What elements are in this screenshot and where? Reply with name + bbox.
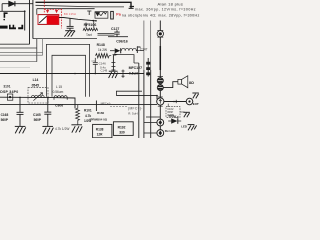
red dashed horizontal: [44, 8, 61, 10]
jack contact D: [157, 119, 164, 126]
wire top-left horizontal: [2, 3, 33, 5]
capacitor C (under pot): [67, 26, 74, 30]
resistor zigzag pair: [83, 21, 98, 31]
dashed box C162: [166, 107, 180, 118]
inductor L14 coil: [31, 95, 44, 97]
junction dot x75: [74, 73, 76, 75]
wire double bus to C127: [98, 34, 115, 36]
node dot jack column: [156, 95, 158, 97]
wire second top line: [36, 5, 125, 7]
svg-text:560P: 560P: [34, 118, 42, 122]
svg-text:L 15: L 15: [56, 85, 62, 89]
svg-text:Alan 18 plus: Alan 18 plus: [158, 2, 184, 7]
right bus vertical x138.8: [138, 63, 140, 138]
wire corner x116: [116, 91, 142, 95]
staircase bus V x36.8: [36, 39, 38, 62]
svg-text:EXT: EXT: [193, 102, 199, 106]
wire vertical x24.7: [24, 11, 26, 30]
bullet connector on jack column: [157, 31, 163, 38]
capacitor C127: [114, 30, 119, 36]
ground under C165: [42, 126, 53, 134]
potentiometer wiper diagonal: [39, 16, 47, 23]
svg-text:MFC127: MFC127: [129, 66, 142, 70]
svg-text:8Ω: 8Ω: [189, 81, 194, 85]
wire C to EXT: [164, 101, 186, 103]
svg-text:12R: 12R: [97, 133, 104, 137]
junction dot x95.3: [95, 73, 97, 75]
filter component small box: [7, 94, 12, 100]
svg-text:(MFC=)-: (MFC=)-: [128, 106, 143, 110]
potentiometer VR (highlighted) black outline: [38, 15, 59, 25]
trimmer component x123: [122, 70, 125, 79]
staircase bus H y48: [0, 47, 37, 49]
inductor L15 coil: [54, 96, 67, 100]
wire horizontal y11: [0, 10, 25, 12]
svg-text:Tant: Tant: [86, 33, 92, 37]
ground under R101: [71, 125, 82, 133]
staircase bus V x42.6: [42, 39, 44, 56]
svg-text:Rb: Rb: [137, 45, 141, 49]
ground (under cap): [64, 31, 75, 37]
svg-text:330: 330: [119, 131, 125, 135]
coil end bar: [136, 47, 138, 53]
ground under connector: [109, 71, 118, 78]
capacitor C168 drop: [19, 97, 21, 112]
svg-text:C9: C9: [92, 59, 96, 63]
wire left vertical stub: [1, 4, 3, 12]
bus H y38.6 long: [33, 38, 97, 40]
right bus vertical x144: [143, 21, 145, 71]
resistor R101 vertical zigzag: [76, 105, 80, 125]
staircase bus H y55.2: [0, 54, 43, 56]
resistor box R138: [93, 124, 112, 137]
red highlight fill: [47, 15, 59, 24]
wire vertical to capacitor: [69, 18, 71, 26]
node junction at x24.7: [24, 10, 26, 12]
resistor R148 zigzag: [96, 54, 112, 58]
svg-text:R160: R160: [97, 111, 105, 115]
ground under LED: [188, 125, 197, 131]
wire y8.6 to PA jack: [37, 8, 95, 10]
svg-text:1k 2W: 1k 2W: [98, 48, 107, 52]
dashed shield box L14: [28, 88, 48, 103]
thick column segment: [159, 46, 161, 70]
transistor stub vertical: [95, 101, 97, 112]
svg-text:C165: C165: [33, 113, 41, 117]
main bus y104.6: [0, 104, 157, 106]
svg-text:Rx LED: Rx LED: [165, 129, 177, 133]
svg-text:R. 5uH: R. 5uH: [128, 112, 137, 116]
svg-text:4PRMB04 0Ω: 4PRMB04 0Ω: [89, 118, 108, 122]
svg-text:0545: 0545: [32, 84, 40, 88]
wire from pot to right: [59, 18, 96, 21]
ground under C168: [15, 126, 26, 133]
bold label fragment top-left: [3, 12, 7, 20]
wire vertical x36.8 upper: [36, 9, 38, 15]
speaker SP: [178, 76, 188, 88]
right bus vertical x150.7: [150, 21, 152, 71]
wire corner near MFC label: [110, 105, 128, 107]
svg-text:R101: R101: [84, 109, 92, 113]
wire bottom component row y97: [0, 97, 75, 108]
svg-text:4.7k 1/2W: 4.7k 1/2W: [55, 127, 69, 131]
ground right of box: [183, 112, 189, 117]
staircase bus H y52.6: [0, 52, 43, 54]
module box inner: [52, 55, 86, 97]
wire box to ground: [180, 111, 185, 113]
svg-text:R192: R192: [118, 125, 126, 129]
capacitor at x95: [93, 58, 98, 74]
staircase bus H y44: [0, 43, 30, 45]
svg-text:C168: C168: [1, 113, 9, 117]
resistor box R192: [113, 122, 133, 136]
bracket foot tick: [129, 6, 134, 8]
svg-text:R148: R148: [97, 43, 105, 47]
svg-text:3101: 3101: [3, 85, 10, 89]
LED diode: [168, 116, 181, 124]
jack column vertical: [159, 21, 161, 137]
staircase bus H y61.7: [0, 61, 37, 63]
svg-text:max. 36Vpp, 12Vrms, f=300Hz: max. 36Vpp, 12Vrms, f=300Hz: [135, 7, 196, 11]
wire under C127: [108, 36, 128, 38]
svg-text:DRG: DRG: [169, 114, 175, 118]
module box outer: [46, 44, 89, 96]
svg-text:C148: C148: [101, 69, 108, 73]
svg-text:LED: LED: [181, 124, 187, 128]
svg-text:560P: 560P: [1, 118, 9, 122]
node dots on wire: [92, 20, 94, 22]
diode D1: [9, 1, 15, 6]
component bar column x148: [146, 58, 150, 77]
red dashed wire from top: [43, 0, 45, 13]
svg-text:0.56um: 0.56um: [53, 90, 64, 94]
red arrow 1: [46, 10, 49, 13]
svg-text:DSP 34P0: DSP 34P0: [0, 90, 18, 94]
jack plug pin: [111, 11, 114, 19]
faint scan line y67.5: [0, 67, 30, 69]
svg-text:na obciążeniu 4Ω; max. 28Vpp,: na obciążeniu 4Ω; max. 28Vpp, f=300Hz: [122, 13, 200, 17]
inductor L14 arrow: [33, 93, 42, 101]
svg-text:MFC=1-: MFC=1-: [101, 102, 112, 106]
junction dots row: [19, 97, 21, 99]
arrowhead on branch: [114, 53, 118, 55]
main bus y73.5: [0, 73, 144, 75]
capacitor C168 plates: [17, 112, 24, 126]
svg-text:R138: R138: [96, 128, 104, 132]
PA jack socket: [87, 11, 108, 18]
jack contact A: [157, 76, 163, 83]
diode on wire: [110, 50, 115, 52]
dashed box stub: [167, 104, 169, 107]
wire into jack C: [116, 96, 157, 100]
red highlight box outline: [38, 14, 59, 24]
label C162: [167, 107, 174, 117]
svg-text:C96/16: C96/16: [116, 39, 128, 43]
svg-text:RF5106: RF5106: [84, 23, 97, 27]
jack EXT: [186, 98, 193, 105]
bus thick top bracket: [36, 2, 132, 8]
jack contact E: [157, 130, 164, 137]
capacitor C165 plates: [44, 112, 51, 126]
wire arrow branch: [113, 55, 134, 63]
jog stub x134 to x138.8: [134, 62, 139, 64]
svg-text:BD 135H: BD 135H: [64, 12, 76, 16]
inductor coil L16: [122, 48, 144, 50]
ground top right: [192, 93, 198, 98]
jack contact B: [157, 85, 163, 91]
red arrow 2: [55, 10, 58, 13]
svg-text:L14: L14: [33, 78, 39, 82]
jack contact C: [157, 98, 164, 105]
bold label fragment row2 left: [0, 25, 23, 30]
svg-text:C127: C127: [111, 27, 119, 31]
connector column x113: [111, 55, 115, 71]
wire stubs to D E: [144, 117, 160, 133]
wire B to speaker: [163, 82, 178, 88]
wire vertical pair x29.5 x33: [30, 0, 33, 44]
red dashed vertical x61.6: [61, 9, 63, 29]
capacitor C165 drop: [47, 98, 49, 112]
